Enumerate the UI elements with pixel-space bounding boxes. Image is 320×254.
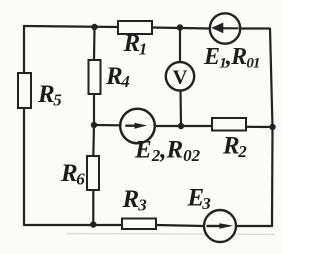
- node: junction middle rail / voltmeter branch: [178, 123, 184, 129]
- wire: R6 branch top (middle rail to R6): [92, 125, 95, 156]
- wire: top rail left segment (corner to R1): [24, 26, 118, 27]
- node: junction top rail / voltmeter branch: [177, 24, 183, 30]
- resistor R4: [89, 60, 101, 94]
- wire: R4 branch bottom (R4 to middle rail): [93, 94, 95, 125]
- scan artifact: faint ghost line under bottom rail: [66, 234, 275, 235]
- resistor R1: [118, 21, 152, 34]
- resistor R5: [18, 73, 31, 108]
- source E3 (circle with right arrow): [204, 210, 236, 242]
- wire: top rail middle segment (R1 to E1): [152, 28, 210, 29]
- node: junction middle rail / right rail: [269, 124, 275, 130]
- wire: bottom rail right segment (E3 to bottom-right corner): [237, 225, 273, 227]
- source E1 (circle with left arrow): [210, 13, 240, 43]
- wire: left vertical rail: [23, 26, 25, 225]
- resistor R3: [122, 219, 156, 230]
- wire: voltmeter branch top (top rail to V): [179, 28, 181, 63]
- svg-text:V: V: [173, 66, 188, 88]
- wire: R4 branch top (top rail to R4): [93, 27, 96, 60]
- wire: bottom rail left segment: [24, 224, 122, 226]
- wire: voltmeter branch bottom (V to middle rail): [179, 90, 182, 126]
- wire: R6 branch bottom (R6 to bottom rail): [92, 190, 94, 225]
- node: junction top rail / R4 branch: [91, 24, 97, 30]
- node: junction bottom rail / R6 branch: [90, 221, 96, 227]
- wire: top rail right segment (E1 to top-right corner) and right vertical rail: [241, 29, 273, 227]
- voltmeter V: [166, 62, 194, 90]
- wire: bottom rail middle segment (R3 to E3): [156, 225, 204, 226]
- wire: middle rail segment (E2 to R2): [155, 125, 213, 127]
- source E2 (circle with right arrow): [120, 109, 155, 144]
- wire: middle rail segment (R2 to right rail): [246, 126, 273, 128]
- wire: middle rail left segment (node to E2): [94, 124, 121, 127]
- resistor R6: [87, 156, 99, 190]
- node: junction middle rail / R4 branch: [91, 122, 97, 128]
- resistor R2: [212, 118, 246, 131]
